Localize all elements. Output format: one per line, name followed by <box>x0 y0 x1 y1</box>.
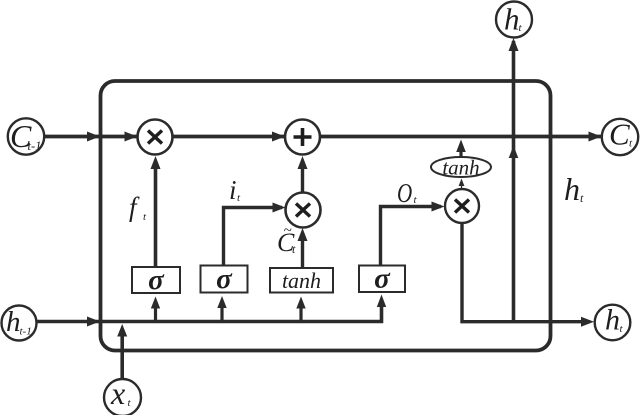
wire h line <box>37 300 382 322</box>
tanh ellipse <box>431 157 491 177</box>
sigma1 box <box>132 267 180 293</box>
svg-text:h: h <box>6 306 21 338</box>
svg-text:~: ~ <box>284 223 292 239</box>
tanh box <box>270 268 333 293</box>
node C_t-1 <box>8 118 44 154</box>
sigma3 box <box>359 266 405 293</box>
wire sigma2 up arrow <box>220 306 223 322</box>
svg-text:i: i <box>229 175 237 205</box>
wire C line <box>44 135 601 139</box>
wire x2 to plus <box>301 166 304 193</box>
arrowhead C line at box edge <box>87 132 100 142</box>
cell box <box>101 81 551 351</box>
wire h up to top h_t <box>512 41 516 322</box>
svg-text:t-1: t-1 <box>28 139 42 153</box>
svg-text:tanh: tanh <box>442 156 479 180</box>
svg-text:tanh: tanh <box>282 268 321 293</box>
svg-text:σ: σ <box>148 264 165 296</box>
wire f (sigma1 to x1) <box>154 166 158 267</box>
arrowhead h line at box edge <box>87 317 100 327</box>
sigma2 box <box>201 266 248 293</box>
svg-text:h: h <box>504 2 520 37</box>
svg-text:σ: σ <box>216 263 233 295</box>
wire x3 to tanh ellipse (thin) <box>461 183 463 190</box>
node h_t top <box>496 2 532 38</box>
wire sigma3 up arrowhead <box>377 295 386 308</box>
node x_t <box>104 379 141 415</box>
svg-text:t-1: t-1 <box>20 326 32 338</box>
wire tanh ellipse to C line <box>459 149 462 157</box>
wire sigma1 up arrow <box>154 306 157 322</box>
node h_t-1 <box>2 306 37 341</box>
wire C-tilde (tanh box to x2) <box>301 236 304 268</box>
node h_t right <box>595 305 631 341</box>
gate plus <box>285 120 320 155</box>
wire x3 output to h_t <box>462 223 590 322</box>
svg-text:σ: σ <box>374 263 391 295</box>
svg-text:O: O <box>397 179 412 209</box>
svg-text:C: C <box>609 117 630 152</box>
svg-text:x: x <box>110 375 125 411</box>
arrowhead mid on h up wire <box>509 146 519 159</box>
wire tanh-box up arrow <box>299 306 302 322</box>
svg-text:h: h <box>564 171 580 207</box>
gate x3 <box>445 189 479 223</box>
wire o (sigma3 to x3) <box>381 207 442 266</box>
arrowhead C line into x1 <box>125 132 138 142</box>
gate x2 <box>286 193 321 228</box>
arrowhead C line into C_t <box>589 132 602 142</box>
gate x1 <box>138 120 173 155</box>
arrowhead C line into plus <box>272 132 285 142</box>
svg-text:h: h <box>605 304 620 337</box>
wire i (sigma2 to x2) <box>224 208 283 266</box>
wire x_t input <box>120 330 124 380</box>
node C_t <box>602 119 638 155</box>
